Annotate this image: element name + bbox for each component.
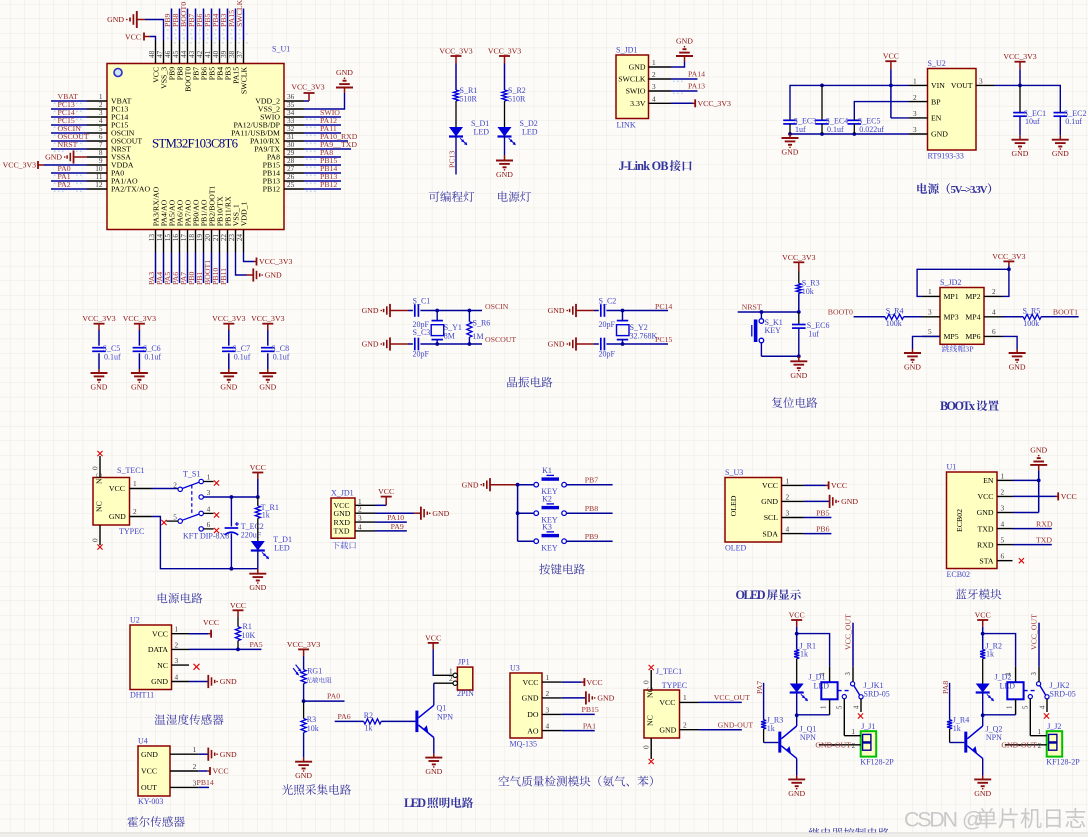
svg-text:KF128-2P: KF128-2P — [860, 758, 894, 767]
wire VCC_3V3 to resistor — [504, 64, 506, 91]
pin 34 SWIO (right) — [260, 108, 341, 122]
pin 1 VCC of J_TEC1 with VCC_OUT — [646, 687, 750, 707]
svg-text:GND: GND — [659, 725, 676, 734]
svg-text:3: 3 — [913, 125, 917, 134]
svg-text:U4: U4 — [138, 737, 148, 746]
svg-text:VCC: VCC — [109, 484, 125, 493]
ground below S_D2 — [496, 137, 513, 180]
svg-text:GND: GND — [931, 130, 948, 139]
pin 46 PB9 (top) — [163, 9, 177, 81]
wire/net PC13 below S_D1 — [447, 137, 456, 175]
svg-text:3: 3 — [913, 109, 917, 118]
svg-text:S_C2: S_C2 — [599, 297, 617, 306]
wire resistor to LED — [455, 101, 457, 127]
svg-text:PC15: PC15 — [655, 335, 672, 344]
wire PC15 net — [621, 335, 673, 346]
svg-text:GND: GND — [91, 383, 108, 392]
ground left of S_C1 — [362, 304, 408, 317]
svg-text:STM32F103C8T6: STM32F103C8T6 — [152, 137, 239, 151]
power VCC_3V3 above RG1 — [287, 640, 320, 656]
pin 3 RXD of X_JD1 — [334, 514, 376, 527]
relay switch contacts — [836, 667, 863, 736]
svg-text:KF128-2P: KF128-2P — [1046, 758, 1080, 767]
sensor U4 KY-003 body — [138, 737, 170, 807]
capacitor S_EC3 1uf — [783, 117, 816, 135]
pin 2 DATA of U2 — [148, 640, 189, 654]
resistor J_R2 1k — [980, 641, 1002, 683]
svg-text:6: 6 — [1001, 552, 1005, 561]
svg-text:GND: GND — [1012, 149, 1029, 158]
power VCC_3V3 at pin 9 VDDA — [3, 161, 87, 170]
wire/net PA13 on pin3 — [671, 82, 705, 95]
pin 47 VSS_3 (top) — [155, 41, 169, 89]
svg-text:TXD: TXD — [1036, 536, 1052, 545]
svg-text:3: 3 — [979, 77, 983, 86]
push button K2 KEY — [518, 495, 567, 525]
svg-text:1k: 1k — [767, 724, 775, 733]
wire GND rail of input caps — [788, 132, 909, 136]
capacitor S_EC6 1uf — [792, 312, 829, 356]
ground on pin2 — [375, 507, 450, 520]
pin 6 STA of U1 — [979, 552, 1012, 566]
power VCC_3V3 above S_D2 — [488, 47, 521, 64]
pin 44 BOOT0 (top) — [179, 2, 193, 92]
wire/net PA0 node — [302, 692, 345, 703]
svg-text:KY-003: KY-003 — [138, 797, 163, 806]
push button K3 KEY — [518, 523, 567, 553]
svg-text:GND: GND — [220, 383, 237, 392]
caption crystal circuit — [507, 377, 552, 388]
svg-text:SWCLK: SWCLK — [618, 75, 646, 84]
svg-text:24: 24 — [235, 234, 244, 242]
svg-text:GND: GND — [496, 170, 513, 179]
caption light collection circuit — [282, 784, 351, 795]
svg-text:0: 0 — [642, 680, 651, 684]
ground below pin5 — [904, 349, 921, 372]
resistor S_R6 1M — [467, 311, 490, 345]
pin 29 PA8 (right) — [267, 148, 341, 162]
wire/net RXD on pin4 — [1013, 519, 1053, 528]
power VCC_3V3 above S_R3 — [782, 253, 815, 271]
resistor J_R3 1k on base — [755, 681, 783, 743]
power VCC_3V3 on pin4 — [671, 99, 731, 108]
caption reset circuit — [772, 397, 817, 408]
svg-text:NC: NC — [157, 661, 168, 670]
power VCC on DHT11 pin1 — [189, 618, 219, 638]
svg-text:4: 4 — [1006, 672, 1013, 676]
svg-text:VIN: VIN — [931, 81, 945, 90]
pin 15 PA5/AO (bottom) — [163, 199, 177, 285]
ground above J-Link pin1 — [676, 37, 693, 62]
ground left of S_C2 — [548, 304, 594, 317]
svg-text:PB12: PB12 — [320, 180, 337, 189]
connector J_J2 KF128-2P — [1005, 722, 1080, 767]
caption J-Link OB interface — [619, 159, 692, 173]
pin 2 PC13 (left) — [51, 100, 128, 114]
capacitor S_C1 20pF — [408, 297, 437, 329]
svg-text:2: 2 — [652, 70, 656, 79]
svg-text:1: 1 — [193, 745, 197, 754]
svg-text:GND: GND — [259, 383, 276, 392]
wire/net PA5 on DATA pin — [189, 640, 263, 651]
svg-text:PB8: PB8 — [585, 504, 599, 513]
svg-text:STA: STA — [979, 556, 993, 565]
svg-text:R3: R3 — [307, 715, 316, 724]
svg-text:GND: GND — [522, 694, 539, 703]
resistor S_R2 510R — [502, 86, 526, 104]
svg-text:VCC_3V3: VCC_3V3 — [251, 314, 284, 323]
svg-text:0.1uf: 0.1uf — [104, 352, 121, 361]
power VCC above T_R1 — [250, 463, 266, 497]
pin 3 GND of S_U2 (left) — [909, 125, 948, 139]
connector J_J1 KF128-2P — [819, 722, 894, 767]
svg-text:S_TEC1: S_TEC1 — [117, 466, 145, 475]
svg-text:5: 5 — [1001, 536, 1005, 545]
pin 42 PB6 (top) — [195, 9, 209, 81]
svg-text:VCC_3V3: VCC_3V3 — [782, 253, 815, 262]
svg-text:1: 1 — [133, 479, 137, 488]
capacitor S_EC2 0.1uf — [1054, 109, 1087, 136]
svg-text:3: 3 — [358, 514, 362, 523]
svg-text:2PIN: 2PIN — [457, 689, 474, 698]
svg-text:GND: GND — [462, 480, 479, 489]
wire resistor to LED — [504, 101, 506, 127]
svg-text:VCC_3V3: VCC_3V3 — [992, 252, 1025, 261]
svg-text:GND: GND — [548, 306, 565, 315]
svg-text:VCC: VCC — [975, 611, 991, 620]
svg-text:NPN: NPN — [800, 733, 816, 742]
ground below input caps — [782, 134, 799, 157]
svg-text:VCC: VCC — [378, 487, 394, 496]
svg-text:OSCIN: OSCIN — [485, 302, 509, 311]
svg-text:RT9193-33: RT9193-33 — [928, 152, 964, 161]
svg-text:VCC_3V3: VCC_3V3 — [698, 99, 731, 108]
ground below S_C7 — [220, 369, 237, 392]
pin 37 SWCLK (top) — [235, 0, 249, 94]
svg-text:5V-->3.3V: 5V-->3.3V — [951, 184, 988, 196]
svg-text:VOUT: VOUT — [951, 81, 973, 90]
svg-text:0.1uf: 0.1uf — [273, 352, 290, 361]
relay J_JK1 SRD-05 coil — [797, 667, 890, 715]
svg-text:10K: 10K — [242, 631, 256, 640]
svg-text:PA7: PA7 — [755, 681, 764, 694]
wire pin1 to switch contact 2 — [152, 488, 179, 490]
wire LED to collector node — [981, 693, 985, 727]
pin 31 PA10/RX (right) — [250, 132, 358, 146]
power VCC on pin1 — [375, 487, 394, 505]
ground left of S_C3 — [362, 337, 408, 350]
svg-text:SRD-05: SRD-05 — [1050, 690, 1076, 699]
resistor J_R4 1k on base — [941, 681, 969, 743]
pin 3 OUT of U4 — [141, 778, 199, 792]
svg-text:0.1uf: 0.1uf — [827, 125, 844, 134]
svg-text:3.3V: 3.3V — [630, 99, 646, 108]
svg-text:GND: GND — [1052, 149, 1069, 158]
svg-text:1M: 1M — [473, 332, 484, 341]
svg-text:VCC_OUT: VCC_OUT — [714, 693, 750, 702]
svg-text:12: 12 — [95, 180, 103, 189]
wire VCC_3V3 to resistor — [455, 64, 457, 91]
pin 1 VCC of U3 — [522, 673, 561, 687]
svg-text:4: 4 — [1001, 520, 1005, 529]
svg-text:GND: GND — [334, 509, 351, 518]
svg-text:PA2: PA2 — [58, 180, 71, 189]
caption temperature humidity sensor — [155, 714, 224, 725]
bottom window strip — [0, 833, 1088, 837]
pins 3/4 of S_JD2 — [922, 308, 1002, 322]
transistor J_Q2 NPN — [964, 725, 1002, 776]
svg-text:GND: GND — [432, 509, 449, 518]
svg-text:1k: 1k — [800, 650, 808, 659]
svg-text:2: 2 — [992, 287, 996, 296]
svg-text:BOOT0: BOOT0 — [828, 308, 853, 317]
svg-text:LED: LED — [474, 128, 490, 137]
svg-text:0: 0 — [91, 538, 100, 542]
wire/net VCC_OUT rotated — [1030, 614, 1040, 667]
svg-text:3P: 3P — [965, 345, 974, 354]
svg-text:BP: BP — [931, 97, 941, 106]
svg-text:U2: U2 — [130, 616, 140, 625]
power VCC_3V3 at pin 24 VDD_1 (bottom) — [244, 253, 293, 267]
svg-text:GND: GND — [151, 677, 168, 686]
svg-text:NC: NC — [646, 687, 655, 698]
svg-text:TXD: TXD — [977, 524, 993, 533]
svg-text:GND: GND — [904, 363, 921, 372]
pin 7 NRST (left) — [51, 140, 131, 154]
svg-text:S_U2: S_U2 — [928, 59, 946, 68]
pin 38 PA15 (top) — [227, 9, 241, 84]
svg-text:1: 1 — [928, 287, 932, 296]
connector S_JD1 J-Link body — [616, 46, 649, 130]
svg-text:1k: 1k — [262, 511, 270, 520]
svg-text:NRST: NRST — [742, 303, 762, 312]
capacitor S_C7 0.1uf — [222, 330, 251, 369]
svg-text:JP1: JP1 — [458, 658, 470, 667]
caption LED lighting circuit — [404, 796, 473, 810]
power VCC at pin 48 (top) — [125, 32, 156, 41]
svg-text:PC14: PC14 — [655, 302, 672, 311]
svg-text:BOOTx: BOOTx — [940, 399, 976, 413]
svg-text:J_TEC1: J_TEC1 — [656, 667, 682, 676]
svg-text:1: 1 — [175, 625, 179, 634]
svg-text:DHT11: DHT11 — [130, 691, 154, 700]
svg-text:100k: 100k — [1023, 319, 1039, 328]
pin 2 GND of S_TEC1 — [95, 501, 152, 521]
svg-text:4: 4 — [546, 722, 550, 731]
connector J_TEC1 TYPEC body — [644, 667, 687, 738]
pin 4 TXD of X_JD1 — [334, 522, 376, 535]
svg-text:VCC: VCC — [125, 32, 141, 41]
ground below T_D1 — [249, 569, 266, 593]
pin 4 SDA of S_U3 — [762, 525, 803, 539]
caption OLED display — [736, 588, 801, 602]
svg-text:PB14: PB14 — [197, 778, 214, 787]
svg-text:PA6: PA6 — [338, 712, 351, 721]
power VCC above JP1 — [425, 633, 441, 649]
ground below reset — [790, 356, 807, 380]
svg-text:EN: EN — [983, 476, 994, 485]
capacitor S_EC1 10uf — [1013, 85, 1046, 135]
LED J_D2 — [976, 673, 1016, 702]
svg-text:SWCLK: SWCLK — [240, 66, 249, 94]
pin 2 BP of S_U2 (left) — [909, 93, 941, 107]
svg-text:VCC: VCC — [659, 698, 675, 707]
svg-text:PB9: PB9 — [585, 532, 599, 541]
power VCC above R1 — [230, 601, 246, 617]
wire OSCIN net — [435, 302, 508, 313]
wire VCC to VIN and EN — [889, 69, 909, 118]
svg-text:1uf: 1uf — [808, 329, 819, 338]
crystal S_Y1 8M — [431, 311, 462, 345]
svg-text:KFT DIP-8X8: KFT DIP-8X8 — [183, 531, 229, 540]
pin 19 PB1/AO (bottom) — [195, 199, 209, 285]
caption key circuit — [539, 564, 585, 575]
pin 3 SWIO of S_JD1 — [626, 82, 671, 96]
svg-text:VCC_3V3: VCC_3V3 — [1003, 52, 1036, 61]
pin 1 EN of U1 — [983, 471, 1012, 485]
svg-text:PA8: PA8 — [941, 681, 950, 694]
svg-text:GND: GND — [425, 767, 442, 776]
display S_U3 OLED body — [725, 468, 782, 553]
wire JP1 pin2 to Q1 collector — [433, 683, 435, 705]
pin 11 PA1/AO (left) — [51, 172, 138, 186]
pin 13 PA3/RX/AO (bottom) — [147, 186, 161, 285]
caption relay control circuit — [809, 828, 889, 837]
svg-text:PB11: PB11 — [219, 268, 228, 285]
power VCC_3V3 above S_D1 — [439, 47, 472, 64]
svg-text:3: 3 — [652, 82, 656, 91]
wire/net GND-OUT to J_J2 — [1001, 741, 1037, 750]
wire VIN net to input caps — [790, 84, 909, 119]
svg-text:5: 5 — [173, 513, 177, 522]
capacitor S_EC5 0.022uf — [848, 117, 885, 135]
svg-text:J-Link OB: J-Link OB — [619, 159, 669, 173]
svg-text:2: 2 — [449, 674, 453, 683]
svg-text:1: 1 — [851, 727, 855, 736]
svg-text:2: 2 — [175, 640, 179, 649]
ground below Q1 — [425, 754, 442, 777]
power VCC_3V3 above S_C8 — [251, 314, 284, 330]
svg-text:S_JD2: S_JD2 — [940, 278, 961, 287]
regulator S_U2 RT9193-33 body — [928, 59, 977, 161]
svg-text:VCC: VCC — [587, 678, 603, 687]
power VCC_3V3 above S_C6 — [123, 314, 156, 330]
svg-text:GND: GND — [597, 694, 614, 703]
wire/net PA10 on pin3 — [375, 513, 407, 522]
pin 2 VCC of U4 — [141, 762, 199, 776]
svg-text:ECB02: ECB02 — [947, 570, 971, 579]
wire/net VCC_OUT rotated — [844, 614, 854, 667]
ground above bluetooth — [1030, 445, 1047, 470]
svg-text:VCC_3V3: VCC_3V3 — [439, 47, 472, 56]
svg-text:4: 4 — [652, 95, 656, 104]
LED J_D1 — [790, 673, 830, 702]
pin 17 PA7/AO (bottom) — [179, 199, 193, 285]
svg-text:PA9: PA9 — [391, 522, 404, 531]
push button K1 KEY — [518, 466, 567, 496]
svg-text:GND: GND — [265, 271, 282, 280]
svg-text:VCC_OUT: VCC_OUT — [1030, 614, 1039, 650]
svg-text:1: 1 — [913, 77, 917, 86]
watermark CSDN — [904, 808, 1085, 832]
pin 10 PA0 (left) — [51, 164, 124, 178]
wire/net PA1 on pin4 — [562, 721, 596, 730]
svg-text:GND: GND — [141, 750, 158, 759]
capacitor S_C4 20pF — [594, 338, 623, 359]
svg-text:5: 5 — [1022, 705, 1029, 709]
sensor U3 MQ-135 body — [510, 664, 543, 749]
svg-text:VCC: VCC — [213, 767, 229, 776]
svg-text:220uF: 220uF — [241, 530, 262, 539]
svg-text:VCC_3V3: VCC_3V3 — [488, 47, 521, 56]
wire bottom node of reset — [761, 354, 800, 358]
pin 36 VDD_2 (right) — [255, 92, 304, 106]
svg-text:PB7: PB7 — [585, 475, 599, 484]
svg-text:GND-OUT: GND-OUT — [1001, 741, 1037, 750]
svg-text:4: 4 — [207, 505, 211, 514]
pin 30 PA9/TX (right) — [254, 140, 357, 154]
svg-text:NPN: NPN — [437, 712, 453, 721]
ground below R3 — [295, 758, 312, 781]
pin 1 VCC of S_TEC1 — [95, 473, 152, 493]
caption power 5V to 3.3V — [917, 183, 991, 196]
svg-text:OLED: OLED — [729, 495, 738, 516]
svg-text:1: 1 — [683, 693, 687, 702]
svg-text:3: 3 — [845, 672, 852, 676]
photoresistor RG1 — [293, 656, 332, 701]
resistor S_R1 510R — [453, 86, 477, 104]
svg-text:PB12: PB12 — [263, 185, 280, 194]
svg-text:NRST: NRST — [58, 140, 78, 149]
pin 4 GND of U2 — [151, 673, 189, 687]
wire/net PB6 on OLED pin4 — [804, 525, 832, 534]
wire/net PA9 on pin4 — [375, 522, 407, 531]
svg-text:0.1uf: 0.1uf — [1065, 117, 1082, 126]
svg-text:2: 2 — [193, 762, 197, 771]
pin 3 DO of U3 — [527, 705, 562, 719]
resistor S_R5 100k with BOOT1 — [1002, 306, 1079, 328]
svg-text:GND: GND — [107, 15, 124, 24]
power VCC on OLED pin1 — [804, 481, 847, 490]
pin 23 VSS_1 (bottom) — [227, 204, 241, 252]
ground on OLED pin2 — [804, 495, 859, 508]
connector S_JD2 jumper body — [940, 278, 984, 344]
svg-text:LED: LED — [404, 796, 426, 810]
svg-text:NC: NC — [95, 501, 104, 512]
svg-text:VCC: VCC — [789, 611, 805, 620]
pin 26 PB13 (right) — [263, 172, 341, 186]
svg-text:MP2: MP2 — [965, 292, 980, 301]
svg-text:GND: GND — [548, 340, 565, 349]
pin 1 VCC of U2 — [152, 625, 189, 639]
svg-text:GND: GND — [362, 306, 379, 315]
svg-text:0.1uf: 0.1uf — [144, 352, 161, 361]
svg-text:0: 0 — [642, 745, 651, 749]
LED lamp 1 (programmable) — [0, 0, 1, 1]
svg-text:10k: 10k — [307, 724, 319, 733]
svg-text:4: 4 — [786, 525, 790, 534]
wire OSCOUT net — [435, 335, 516, 346]
wire key common rail — [516, 483, 520, 541]
resistor S_R3 10k — [796, 279, 819, 297]
svg-text:RG1: RG1 — [307, 667, 322, 676]
wire LED to collector node — [795, 693, 799, 727]
svg-text:LINK: LINK — [617, 121, 636, 130]
caption BOOTx setting — [940, 399, 999, 413]
pin 2 GND of S_U3 — [761, 492, 804, 506]
svg-text:1: 1 — [1037, 727, 1041, 736]
svg-text:GND-OUT: GND-OUT — [815, 741, 851, 750]
